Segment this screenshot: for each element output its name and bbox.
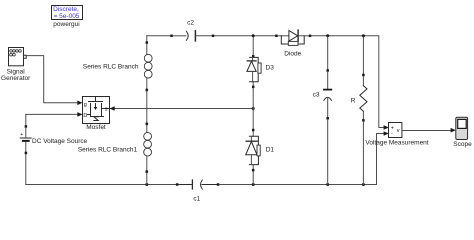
wire D3 junction to D1 (252, 109, 254, 129)
inductor Series RLC Branch (144, 36, 152, 91)
svg-text:Scope: Scope (453, 141, 472, 148)
diode D3 (247, 37, 261, 108)
junction R/bottom rail (362, 183, 365, 186)
arrowhead into g (77, 101, 82, 106)
wire left rail to mosfet D (26, 113, 81, 115)
junction D1/bottom rail (252, 183, 255, 186)
svg-text:D: D (83, 113, 87, 119)
svg-text:Discrete,: Discrete, (53, 6, 79, 13)
capacitor c2 (170, 31, 214, 41)
bottom rail right segment (219, 184, 376, 186)
junction R/top rail (362, 34, 365, 37)
mosfet U1 (83, 97, 111, 124)
svg-text:c1: c1 (193, 196, 200, 203)
arrowhead into VM + (384, 125, 389, 130)
arrowhead into D (77, 112, 82, 117)
svg-text:v: v (397, 128, 400, 134)
Diode block (275, 30, 311, 45)
junction s-wire / diode branch (252, 107, 255, 110)
signal generator block (9, 48, 27, 66)
svg-text:D3: D3 (266, 65, 275, 72)
svg-text:c2: c2 (187, 20, 194, 27)
svg-text:DC Voltage Source: DC Voltage Source (32, 138, 88, 145)
svg-text:Series RLC Branch1: Series RLC Branch1 (78, 147, 138, 154)
powergui block (52, 6, 83, 21)
wire bottom rail up to VM - (377, 134, 386, 185)
junction c3/bottom rail (326, 183, 329, 186)
top rail: Diode to corner, down to VM + (311, 36, 386, 128)
resistor R (360, 37, 367, 184)
voltage measurement block (389, 123, 402, 138)
arrowhead into s (110, 106, 115, 111)
capacitor c1 (176, 180, 219, 189)
svg-text:Voltage Measurement: Voltage Measurement (365, 140, 428, 147)
junction L1/bottom rail (145, 183, 148, 186)
svg-text:powergui: powergui (53, 21, 79, 28)
scope block (456, 117, 468, 139)
top rail: c2 to Diode (214, 35, 275, 37)
svg-text:s: s (105, 107, 108, 113)
svg-text:Diode: Diode (284, 50, 301, 57)
svg-text:c3: c3 (313, 92, 320, 99)
arrowhead into scope (451, 128, 456, 133)
junction D3/top rail (252, 34, 255, 37)
svg-text:= 5e-005: = 5e-005 (54, 13, 80, 20)
svg-text:-: - (391, 131, 393, 137)
svg-text:Generator: Generator (1, 75, 31, 82)
DC voltage source V1 (20, 114, 31, 184)
svg-text:+: + (20, 132, 23, 138)
svg-text:Mosfet: Mosfet (86, 124, 106, 131)
wire mosfet s from D3 branch (112, 108, 254, 110)
svg-text:D1: D1 (266, 147, 275, 154)
arrowhead into VM - (384, 131, 389, 136)
svg-text:g: g (84, 102, 87, 108)
diode D1 (246, 129, 261, 185)
inductor Series RLC Branch1 (144, 123, 152, 185)
top rail: riser to c2 (147, 35, 171, 37)
svg-text:Series RLC Branch: Series RLC Branch (83, 64, 139, 71)
bottom rail left segment (26, 184, 176, 186)
capacitor c3 (324, 37, 332, 184)
wire between inductors (crosses s-wire, no junction) (146, 91, 148, 123)
junction c3/top rail (326, 34, 329, 37)
svg-text:R: R (351, 97, 356, 104)
wire VM to scope (402, 130, 453, 132)
wire SG to mosfet gate (26, 56, 80, 103)
